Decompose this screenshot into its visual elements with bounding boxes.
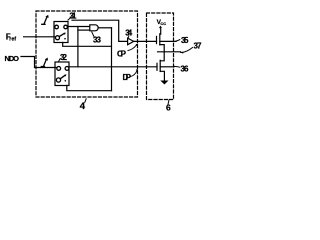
wire upper bulk to 35 xyxy=(160,40,176,42)
label CP xyxy=(117,50,127,59)
control arrow of switch 31 xyxy=(42,17,47,25)
wire lower bulk to 36 xyxy=(160,66,174,68)
common contact circle 31 xyxy=(56,36,60,40)
switch box 32 xyxy=(55,62,69,86)
wire gate input 2 stub xyxy=(78,29,90,31)
svg-text:CC: CC xyxy=(160,21,166,26)
wire vertical bus x77.9 (node to DP line) xyxy=(77,27,79,67)
label 36 xyxy=(181,65,190,74)
wire vertical bus x111.5 xyxy=(111,28,113,91)
label 35 xyxy=(181,36,189,45)
control arrow of switch 32 xyxy=(41,60,46,67)
wire from box31 top to long CP feed wire xyxy=(72,20,128,41)
contact circle 31 left xyxy=(55,25,59,29)
svg-text:37: 37 xyxy=(194,42,203,51)
label 6 xyxy=(166,103,171,113)
wire NDO input xyxy=(21,57,57,68)
leader for label DP xyxy=(131,71,138,77)
label NDO xyxy=(5,54,20,63)
AND gate 33 xyxy=(90,25,98,31)
outer dashed box 4 xyxy=(36,11,138,97)
label 31 xyxy=(70,12,78,21)
wire Fref input xyxy=(24,36,56,38)
ground xyxy=(160,81,168,85)
wire output node to 37 xyxy=(158,51,181,53)
leader for label 6 xyxy=(168,100,169,105)
contact circle 32 right xyxy=(65,67,69,71)
svg-text:NDO: NDO xyxy=(5,54,20,63)
switch box 31 xyxy=(54,22,68,43)
wire DP from box32 right contact to lower transistor gate xyxy=(69,66,157,68)
buffer 34 xyxy=(128,38,134,45)
contact circle 31 right xyxy=(64,25,68,29)
common contact circle 32 xyxy=(56,78,60,82)
wire CP to upper transistor gate xyxy=(134,40,157,42)
leader for label CP xyxy=(128,45,137,51)
svg-text:31: 31 xyxy=(70,12,78,21)
svg-text:33: 33 xyxy=(93,36,102,45)
inner dashed box 6 xyxy=(147,13,174,100)
leader squiggle 36 xyxy=(174,65,180,68)
svg-text:35: 35 xyxy=(181,36,189,45)
switch arm 32 xyxy=(60,75,65,79)
leader squiggle 37 xyxy=(181,48,193,53)
wire from box31 bottom xyxy=(63,43,111,47)
svg-text:36: 36 xyxy=(181,65,190,74)
wire lower source to ground xyxy=(160,71,164,80)
wire gate 33 output xyxy=(98,27,111,29)
label 34 xyxy=(125,28,133,37)
Vcc supply arrow xyxy=(160,28,162,34)
label 37 xyxy=(194,42,203,51)
switch arm 31 xyxy=(59,33,64,36)
label 33 xyxy=(93,36,102,45)
wire from box32 bottom xyxy=(67,86,112,91)
transistor 36 (lower MOSFET) xyxy=(156,63,158,70)
transistor 35 (upper MOSFET) xyxy=(156,36,158,43)
wire upper source to output node xyxy=(160,45,164,52)
leader for label 4 xyxy=(85,99,86,103)
contact circle 32 left xyxy=(57,67,61,71)
svg-text:DP: DP xyxy=(123,73,132,82)
svg-text:32: 32 xyxy=(60,53,68,62)
wire lower drain to output node xyxy=(160,52,164,61)
label Vcc xyxy=(157,19,167,26)
leader for label 33 xyxy=(92,32,94,36)
label 32 xyxy=(60,53,68,62)
svg-text:CP: CP xyxy=(117,50,127,59)
leader squiggle 35 xyxy=(176,40,180,41)
label DP xyxy=(123,73,132,82)
leader for label 31 xyxy=(68,17,72,20)
leader for label 32 xyxy=(59,59,60,62)
label Fref xyxy=(6,33,17,43)
svg-text:ref: ref xyxy=(9,36,16,42)
wire from box31 right contact to gate input 1 xyxy=(67,26,89,28)
label 4 xyxy=(80,101,86,112)
